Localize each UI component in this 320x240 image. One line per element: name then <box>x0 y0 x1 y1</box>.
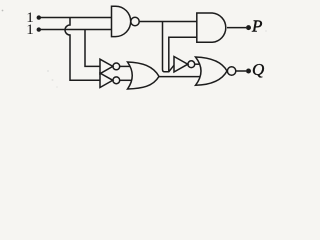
svg-text:1: 1 <box>26 22 34 38</box>
svg-text:Q: Q <box>252 60 264 79</box>
svg-text:P: P <box>251 17 262 36</box>
